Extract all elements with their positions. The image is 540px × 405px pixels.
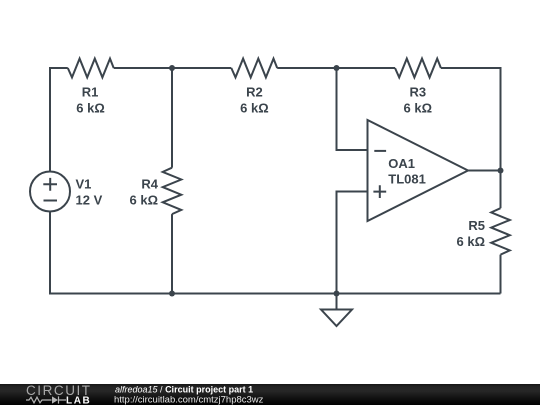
V1 minus sign (44, 200, 58, 202)
svg-text:R1: R1 (82, 85, 99, 100)
svg-text:6 kΩ: 6 kΩ (240, 101, 269, 116)
wire R4 to bottom rail (171, 214, 173, 293)
svg-text:LAB: LAB (66, 395, 91, 405)
logo resistor zigzag (26, 397, 52, 403)
wire V1 bottom to bottom rail (50, 212, 172, 294)
wire top-left corner and left vertical to V1 (50, 68, 68, 172)
svg-text:R5: R5 (468, 218, 485, 233)
bottom rail wire (172, 293, 501, 295)
svg-text:12 V: 12 V (76, 193, 103, 208)
resistor R2 (231, 59, 277, 78)
svg-text:R4: R4 (141, 177, 158, 192)
bottom node dot at ground (334, 291, 340, 297)
wire R3 to right corner down to output (441, 68, 501, 171)
wire R1 to node A (114, 67, 232, 69)
resistor R1 (68, 59, 114, 78)
svg-text:6 kΩ: 6 kΩ (76, 101, 105, 116)
svg-text:R2: R2 (246, 85, 263, 100)
logo diode (52, 396, 58, 403)
voltage source V1 (30, 172, 70, 212)
wire R2 to node B (277, 67, 395, 69)
node A junction dot (169, 65, 175, 71)
V1 plus sign (43, 178, 57, 191)
svg-text:alfredoa15 / Circuit project p: alfredoa15 / Circuit project part 1 (115, 385, 253, 395)
svg-text:TL081: TL081 (388, 172, 426, 187)
wire R5 to bottom rail (500, 255, 502, 294)
bottom node dot at R4 (169, 291, 175, 297)
output node junction dot (498, 168, 504, 174)
ground symbol (321, 310, 352, 327)
svg-text:6 kΩ: 6 kΩ (457, 234, 486, 249)
node B junction dot (334, 65, 340, 71)
svg-text:http://circuitlab.com/cmtzj7hp: http://circuitlab.com/cmtzj7hp8c3wz (114, 395, 264, 405)
wire op-amp output (468, 170, 501, 172)
wire node A down to R4 (171, 68, 173, 168)
svg-text:OA1: OA1 (388, 156, 415, 171)
svg-text:V1: V1 (76, 177, 92, 192)
svg-text:6 kΩ: 6 kΩ (404, 101, 433, 116)
wire node B down to inverting input (337, 68, 368, 150)
svg-text:R3: R3 (409, 85, 426, 100)
resistor R3 (395, 59, 441, 78)
svg-text:6 kΩ: 6 kΩ (130, 193, 159, 208)
wire output down to R5 (500, 171, 502, 209)
wire non-inverting input down to bottom rail (337, 192, 368, 294)
op-amp minus marker (374, 150, 386, 152)
ground stem (336, 294, 338, 310)
op-amp OA1 triangle (368, 120, 469, 221)
resistor R4 (163, 168, 182, 214)
op-amp plus marker (373, 185, 386, 198)
resistor R5 (491, 208, 510, 254)
